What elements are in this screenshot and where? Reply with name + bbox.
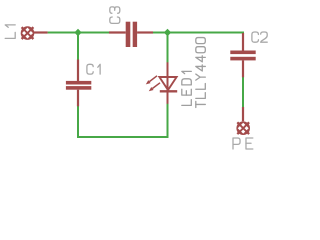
capacitor C2 bottom pin [242, 60, 244, 77]
connector L1 pin [34, 31, 48, 33]
capacitor C3 plates [126, 22, 137, 47]
capacitor C1 plates [66, 81, 91, 90]
LED LED1 triangle [159, 77, 176, 90]
wire LED upper vertical [167, 33, 169, 63]
LED LED1 light arrow 2 [149, 83, 160, 92]
wire C1 upper vertical [77, 33, 79, 60]
connector L1 pad [21, 26, 35, 40]
LED LED1 cathode bar [160, 90, 177, 92]
wire C2 to PE vertical [242, 77, 244, 108]
label C3 [110, 7, 120, 24]
wire net top horizontal right segment with corner to C2 [153, 32, 244, 34]
label TLLY4400 [196, 38, 206, 108]
capacitor C2 top pin from corner [242, 33, 244, 51]
capacitor C1 bottom pin [77, 90, 79, 107]
label C2 [252, 32, 267, 42]
junction node at LED branch [164, 29, 171, 36]
label LED1 [182, 71, 192, 105]
wire bottom loop from C1 to LED cathode [78, 104, 168, 138]
connector PE pad [236, 121, 250, 135]
capacitor C2 plates [230, 51, 255, 61]
label C1 [87, 64, 100, 74]
capacitor C1 top pin [77, 60, 79, 82]
LED LED1 light arrow 1 [146, 76, 157, 85]
wire net top horizontal left segment [48, 32, 110, 34]
capacitor C3 left pin [109, 31, 126, 33]
capacitor C3 right pin [137, 31, 153, 33]
label PE [233, 138, 253, 149]
connector PE pin [242, 107, 244, 121]
LED LED1 anode lead through symbol [167, 62, 169, 104]
junction node at C1 branch [74, 29, 81, 36]
label L1 [5, 25, 15, 39]
